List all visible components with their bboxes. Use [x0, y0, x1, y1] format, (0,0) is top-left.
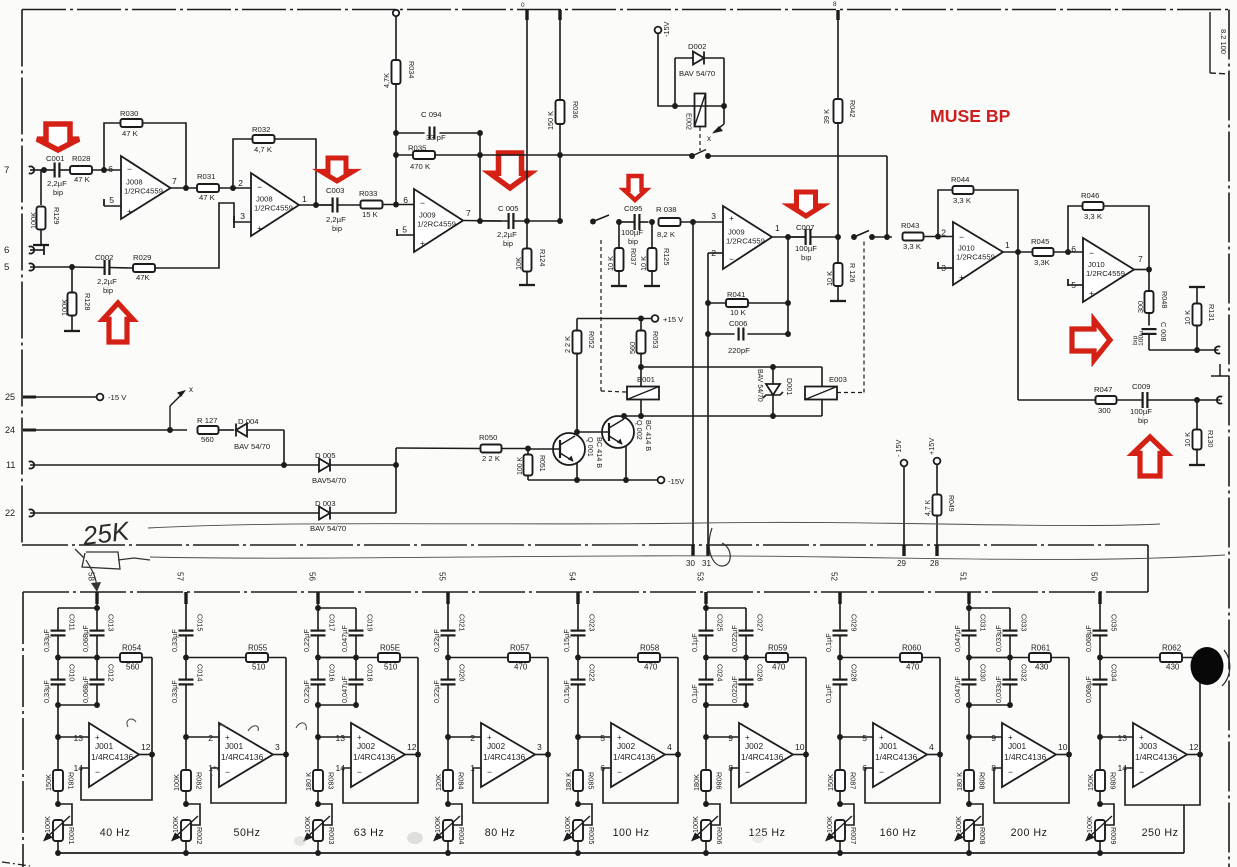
svg-text:R029: R029 [133, 253, 151, 262]
svg-text:J009: J009 [419, 211, 436, 220]
svg-text:+: + [1089, 288, 1094, 298]
capacitor C008 [1142, 328, 1157, 330]
svg-text:100K: 100K [563, 816, 572, 833]
svg-text:10 K: 10 K [639, 256, 648, 271]
capacitor C029 [833, 629, 848, 631]
resistor R088 [968, 737, 970, 770]
capacitor C028 [833, 678, 848, 680]
svg-text:C033: C033 [1020, 614, 1029, 631]
node [785, 300, 791, 306]
node [835, 234, 841, 240]
node [705, 331, 711, 337]
svg-text:24: 24 [5, 425, 15, 435]
op-amp J003 [1133, 723, 1187, 787]
bottom section top border (dash-dot) [23, 591, 1148, 593]
node on ground rail [183, 850, 189, 856]
wire bottom horizontal [318, 704, 356, 706]
svg-text:1/2RC4559: 1/2RC4559 [417, 220, 456, 229]
svg-text:510: 510 [384, 663, 398, 672]
node on ground rail [315, 850, 321, 856]
svg-text:−: − [257, 182, 262, 192]
capacitor C015 [179, 629, 194, 631]
capacitor C019 [349, 629, 364, 631]
wire to R043 [872, 236, 892, 238]
wire [30, 169, 44, 171]
svg-text:BAV 54/70: BAV 54/70 [756, 369, 763, 402]
input wire pin 9 [703, 734, 709, 740]
svg-text:R007: R007 [849, 827, 858, 844]
Q002 collector wire [623, 416, 625, 419]
svg-text:560: 560 [126, 663, 140, 672]
wire branch upper [1009, 608, 1011, 631]
resistor R05E [318, 657, 378, 659]
node [721, 103, 727, 109]
capacitor C095 [633, 214, 635, 230]
svg-text:C095: C095 [624, 204, 642, 213]
svg-text:C027: C027 [756, 614, 765, 631]
svg-text:E002: E002 [685, 113, 694, 130]
ground R129 [33, 244, 49, 246]
svg-text:R082: R082 [195, 772, 204, 789]
wire mid horizontal [318, 657, 356, 659]
Q001 emitter wire [576, 463, 578, 480]
red arrow at C003 [321, 158, 353, 181]
svg-text:40 Hz: 40 Hz [100, 827, 130, 839]
svg-text:R060: R060 [902, 644, 922, 653]
wire rail upper [968, 604, 970, 631]
svg-text:C022: C022 [588, 664, 597, 681]
handwritten hook at pin 31 [709, 528, 730, 566]
svg-text:25: 25 [5, 392, 15, 402]
resistor R038 [659, 218, 681, 226]
terminal -15V for E002 [655, 27, 662, 34]
op-amp J001 [219, 723, 273, 787]
svg-text:13: 13 [1117, 733, 1127, 743]
svg-text:R061: R061 [1031, 644, 1051, 653]
svg-text:C001: C001 [46, 154, 64, 163]
svg-text:47K: 47K [136, 273, 151, 282]
svg-text:R004: R004 [457, 827, 466, 844]
wire caps middle [96, 635, 98, 679]
svg-text:0,22µF: 0,22µF [432, 629, 441, 652]
svg-text:12: 12 [141, 742, 151, 752]
svg-text:R041: R041 [727, 290, 745, 299]
resistor R059 [706, 657, 766, 659]
op-amp U J008b [251, 173, 299, 236]
svg-text:−: − [225, 767, 230, 777]
svg-text:C031: C031 [979, 614, 988, 631]
svg-text:1: 1 [1005, 240, 1010, 250]
svg-text:10 K: 10 K [1183, 432, 1192, 447]
page border right (dash-dot) [1228, 10, 1230, 867]
wire rail continues down [968, 705, 970, 737]
svg-text:470: 470 [514, 663, 528, 672]
op-amp U J009a [414, 189, 463, 252]
svg-text:180 K: 180 K [564, 772, 573, 791]
wire bottom horizontal [969, 704, 1010, 706]
svg-text:180 K: 180 K [304, 772, 313, 791]
capacitor C016 [311, 678, 326, 680]
wire caps lower [705, 684, 707, 705]
resistor R058 [578, 657, 638, 659]
ground R125 [644, 285, 660, 287]
top tick x=838 R042 column [836, 10, 839, 20]
resistor R052 [576, 319, 578, 332]
svg-text:-15V: -15V [662, 21, 671, 37]
svg-text:220pF: 220pF [728, 346, 750, 355]
svg-text:1/4RC4136: 1/4RC4136 [741, 752, 784, 762]
pin 3 stub J010a [938, 267, 953, 269]
svg-text:R083: R083 [327, 772, 336, 789]
svg-text:R006: R006 [715, 827, 724, 844]
dashed link E003 to switch [837, 392, 864, 394]
svg-text:MUSE BP: MUSE BP [930, 106, 1011, 126]
svg-text:150K: 150K [826, 774, 835, 791]
diode D003 [319, 507, 330, 520]
svg-text:0,22µF: 0,22µF [302, 629, 311, 652]
svg-text:C035: C035 [1110, 614, 1119, 631]
wire rail upper [317, 604, 319, 631]
svg-text:33 pF: 33 pF [426, 133, 446, 142]
svg-text:J001: J001 [95, 741, 113, 751]
ground R124 [519, 284, 535, 286]
svg-text:50Hz: 50Hz [234, 827, 261, 839]
node on ground rail [703, 850, 709, 856]
title block box 8.2 100 [1209, 12, 1211, 73]
svg-text:R044: R044 [951, 175, 970, 184]
svg-text:-15V: -15V [668, 477, 685, 486]
svg-text:Q 001: Q 001 [586, 437, 595, 457]
op-amp J001 [873, 723, 927, 787]
capacitor C007 [804, 229, 806, 245]
node [393, 130, 399, 136]
svg-text:+: + [959, 272, 964, 282]
red arrow at C005 [490, 153, 530, 188]
svg-text:C014: C014 [196, 664, 205, 681]
connector middle stub [1211, 375, 1229, 377]
ground R037 [611, 285, 627, 287]
svg-text:J002: J002 [357, 741, 375, 751]
wire rail through capacitors [577, 604, 579, 631]
wire 30 vertical [692, 222, 694, 545]
resistor R083 [317, 737, 319, 770]
svg-text:31: 31 [702, 559, 711, 568]
svg-text:Q 002: Q 002 [635, 420, 644, 440]
page border left (dash-dot) [21, 10, 23, 546]
resistor R034 [392, 60, 401, 84]
svg-text:39 K: 39 K [822, 109, 831, 124]
svg-text:+: + [729, 213, 734, 223]
input wire pin 5 [837, 734, 843, 740]
wire rail through capacitors [1099, 604, 1101, 631]
svg-text:+: + [420, 238, 425, 248]
trimmer R001 [58, 804, 72, 825]
svg-text:52: 52 [830, 572, 839, 581]
svg-text:10 K: 10 K [1183, 310, 1192, 325]
output 3 [273, 754, 286, 756]
svg-text:470: 470 [644, 663, 658, 672]
wire E001 bottom [640, 400, 642, 417]
svg-text:R048: R048 [1160, 291, 1169, 308]
capacitor C033 [1003, 629, 1018, 631]
svg-text:47 K: 47 K [199, 193, 216, 202]
svg-text:470: 470 [772, 663, 786, 672]
svg-text:E003: E003 [829, 375, 847, 384]
svg-text:J002: J002 [745, 741, 763, 751]
svg-text:1: 1 [775, 223, 780, 233]
svg-text:13: 13 [335, 733, 345, 743]
svg-text:C015: C015 [196, 614, 205, 631]
terminal -15V transistors [658, 477, 665, 484]
resistor R125 [651, 222, 653, 248]
wire rail to cell9 loop [1183, 805, 1185, 853]
svg-text:0,047µF: 0,047µF [953, 625, 962, 652]
top tick x=560 [558, 10, 561, 20]
svg-text:C007: C007 [796, 223, 814, 232]
wire branch top horizontal [969, 607, 1010, 609]
svg-text:R047: R047 [1094, 385, 1112, 394]
line 5 input wire to J008b pin3 [155, 203, 251, 268]
top tick x=527 [525, 10, 528, 20]
node [638, 364, 644, 370]
svg-text:R037: R037 [629, 248, 638, 265]
svg-text:R003: R003 [327, 827, 336, 844]
svg-text:160 Hz: 160 Hz [880, 827, 917, 839]
svg-text:bip: bip [103, 286, 113, 295]
svg-text:100K: 100K [60, 299, 69, 316]
node on ground rail [837, 850, 843, 856]
wire pin 29 [903, 467, 905, 546]
op-amp J001 [1002, 723, 1056, 787]
-15V rail under transistors [528, 479, 658, 481]
capacitor C020 [441, 678, 456, 680]
svg-text:1: 1 [302, 194, 307, 204]
resistor R048 [1148, 270, 1150, 292]
svg-text:0,1µF: 0,1µF [690, 684, 699, 703]
resistor R049 [933, 495, 942, 516]
wire caps lower [968, 684, 970, 705]
svg-text:0,047µF: 0,047µF [953, 676, 962, 703]
wire R036 to signal [559, 155, 561, 221]
svg-text:10 K: 10 K [730, 308, 747, 317]
svg-text:R 127: R 127 [197, 416, 218, 425]
svg-text:28: 28 [930, 559, 939, 568]
svg-text:2,2µF: 2,2µF [497, 230, 517, 239]
svg-text:bip: bip [53, 188, 63, 197]
svg-text:−: − [1089, 248, 1094, 258]
output 12 [405, 754, 418, 756]
dashed link to E001 [600, 240, 602, 391]
svg-text:1/4RC4136: 1/4RC4136 [483, 752, 526, 762]
svg-text:C025: C025 [716, 614, 725, 631]
svg-text:C012: C012 [107, 664, 116, 681]
node [393, 152, 399, 158]
svg-text:1/4RC4136: 1/4RC4136 [221, 752, 264, 762]
svg-text:2: 2 [238, 178, 243, 188]
wire output column down [787, 237, 789, 334]
capacitor C031 [962, 629, 977, 631]
svg-text:−: − [959, 232, 964, 242]
svg-text:R033: R033 [359, 189, 377, 198]
switch blade at C095 [590, 219, 596, 225]
svg-text:+: + [257, 223, 262, 233]
node [525, 446, 531, 452]
svg-text:0,15µF: 0,15µF [562, 629, 571, 652]
svg-text:100K: 100K [433, 816, 442, 833]
svg-text:C016: C016 [328, 664, 337, 681]
node [1194, 397, 1200, 403]
svg-text:5: 5 [402, 225, 407, 235]
rail y=156 right of switch [708, 155, 887, 157]
ground R128 [64, 330, 80, 332]
svg-text:0,033µF: 0,033µF [994, 676, 1003, 703]
svg-text:56: 56 [308, 572, 317, 581]
svg-text:R042: R042 [848, 100, 857, 117]
capacitor C021 [441, 629, 456, 631]
svg-text:0,33µF: 0,33µF [42, 680, 51, 703]
op-amp U J010a [953, 222, 1003, 285]
svg-text:3: 3 [275, 742, 280, 752]
input wire pin 2 [183, 734, 189, 740]
diode D002 [675, 57, 693, 59]
svg-text:200 Hz: 200 Hz [1011, 827, 1048, 839]
node [935, 234, 941, 240]
bottom common rail [58, 852, 1184, 854]
svg-text:2 2 K: 2 2 K [482, 454, 501, 463]
pin 5 stub J010b [1068, 284, 1083, 286]
Q001 collector node [574, 429, 580, 435]
svg-text:1/4RC4136: 1/4RC4136 [1135, 752, 1178, 762]
svg-text:R05E: R05E [380, 644, 400, 653]
svg-text:10K: 10K [514, 257, 523, 270]
resistor R037 [618, 222, 620, 248]
relay E002 [695, 94, 706, 127]
resistor R089 [1099, 737, 1101, 770]
resistor R051 [527, 449, 529, 456]
resistor R061 [969, 657, 1029, 659]
paper smudge 3 [752, 833, 764, 843]
svg-text:+15 V: +15 V [663, 315, 684, 324]
svg-text:3,3 K: 3,3 K [1084, 212, 1103, 221]
transistor Q002 [602, 416, 634, 448]
svg-text:+15V: +15V [927, 438, 936, 455]
svg-text:C019: C019 [366, 614, 375, 631]
capacitor C023 [571, 629, 586, 631]
Q002 emitter wire [625, 446, 627, 480]
wire branch upper [57, 608, 59, 631]
resistor R035 [413, 151, 435, 159]
svg-text:J010: J010 [1088, 260, 1105, 269]
capacitor C026 [739, 678, 754, 680]
svg-text:100K: 100K [954, 816, 963, 833]
feedback resistor R032 [233, 139, 253, 188]
capacitor C014 [179, 678, 194, 680]
trimmer R009 [1100, 804, 1114, 825]
wire rail through capacitors [839, 604, 841, 631]
resistor R082 [185, 737, 187, 770]
wire caps middle [705, 635, 707, 679]
svg-text:R032: R032 [252, 125, 270, 134]
trimmer R005 [578, 804, 592, 825]
svg-text:100 K: 100 K [517, 456, 524, 475]
node [705, 300, 711, 306]
wire rail continues down [317, 705, 319, 737]
svg-text:R008: R008 [978, 827, 987, 844]
svg-text:560: 560 [201, 435, 214, 444]
pin tick 29 [902, 545, 905, 556]
svg-text:-15 V: -15 V [108, 393, 127, 402]
pin tick 28 [935, 545, 938, 556]
svg-text:−: − [420, 198, 425, 208]
svg-text:3,3 K: 3,3 K [953, 196, 972, 205]
trimmer R002 [186, 804, 200, 825]
wire branch top horizontal [58, 607, 97, 609]
svg-text:R087: R087 [849, 772, 858, 789]
svg-text:4,7K: 4,7K [382, 73, 391, 88]
wire mid horizontal [969, 657, 1010, 659]
wire vertical to R050 [395, 448, 397, 513]
svg-text:R002: R002 [195, 827, 204, 844]
svg-text:3: 3 [240, 211, 245, 221]
connector output lower [1217, 396, 1222, 403]
resistor R087 [839, 737, 841, 770]
svg-text:C024: C024 [716, 664, 725, 681]
capacitor C005 [508, 213, 510, 229]
svg-text:J003: J003 [1139, 741, 1157, 751]
svg-text:1/2RC4559: 1/2RC4559 [956, 253, 995, 262]
capacitor C034 [1093, 678, 1108, 680]
wire branch upper [355, 608, 357, 631]
op-amp U J009b [723, 206, 772, 269]
svg-text:12: 12 [407, 742, 417, 752]
op-amp U J008a [121, 156, 171, 219]
svg-text:C023: C023 [588, 614, 597, 631]
svg-text:7: 7 [1138, 254, 1143, 264]
wire rail through capacitors [185, 604, 187, 631]
svg-text:2: 2 [470, 733, 475, 743]
svg-text:C020: C020 [458, 664, 467, 681]
svg-text:2,2µF: 2,2µF [326, 215, 346, 224]
resistor R053 [640, 319, 642, 332]
trimmer R008 [969, 804, 983, 825]
resistor R060 [840, 657, 900, 659]
svg-text:R005: R005 [587, 827, 596, 844]
handwritten arrow to pin 58 [86, 560, 97, 588]
svg-text:C013: C013 [107, 614, 116, 631]
svg-text:100µF: 100µF [795, 244, 817, 253]
svg-text:10 K: 10 K [825, 271, 834, 286]
wire -15V down [658, 34, 675, 107]
feedback resistor R030 [104, 123, 121, 170]
svg-text:0,1µF: 0,1µF [824, 633, 833, 652]
svg-text:3: 3 [711, 211, 716, 221]
svg-text:J010: J010 [958, 244, 975, 253]
wire branch top horizontal [706, 607, 746, 609]
zener diode D001 [772, 367, 774, 384]
node [524, 218, 530, 224]
resistor R043 [903, 233, 924, 241]
red arrow at C009 [1133, 437, 1167, 476]
wire rail through capacitors [447, 604, 449, 631]
wire to lower connector [1197, 399, 1220, 401]
handwritten scribble cell1 pins [219, 725, 259, 732]
svg-text:bıp: bıp [801, 253, 811, 262]
svg-text:−: − [127, 164, 132, 174]
wire caps lower [317, 684, 319, 705]
svg-text:−: − [1008, 767, 1013, 777]
node [393, 202, 399, 208]
svg-text:R031: R031 [197, 172, 215, 181]
